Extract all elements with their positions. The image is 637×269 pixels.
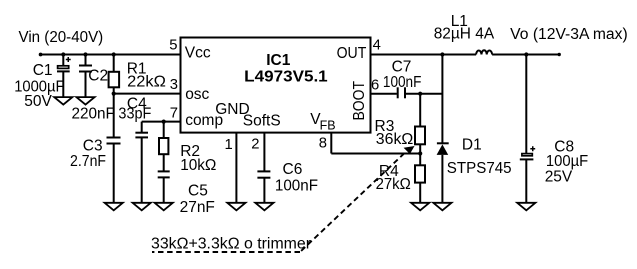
resistor R3: [415, 127, 425, 145]
wire D1 bottom: [441, 155, 443, 203]
wire C2 bottom: [85, 72, 87, 98]
wire output rail after L1: [492, 54, 559, 56]
ground pin1: [227, 203, 245, 211]
capacitor C8 electrolytic symbol: [520, 146, 535, 159]
wire C3 top: [113, 94, 115, 138]
wire R2 top: [163, 122, 165, 138]
capacitor C2 symbol: [79, 66, 92, 72]
wire dashed trimmer underline: [152, 251, 300, 253]
node comp junction R2: [162, 120, 166, 124]
ground D1: [433, 203, 451, 211]
wire C3 bottom: [113, 144, 115, 204]
svg-text:2: 2: [251, 137, 259, 153]
node C8 junction: [524, 52, 528, 56]
ground C8: [517, 203, 535, 211]
node divider VFB junction: [418, 151, 422, 155]
wire osc pin3: [114, 93, 181, 95]
wire C4 bottom: [141, 137, 143, 203]
svg-text:Vo (12V-3A max): Vo (12V-3A max): [510, 26, 628, 43]
svg-text:6: 6: [371, 78, 379, 94]
svg-text:osc: osc: [185, 86, 209, 103]
wire output rail OUT pin4: [371, 54, 477, 56]
ground C6: [255, 203, 273, 211]
svg-text:Vin (20-40V): Vin (20-40V): [19, 29, 104, 46]
wire BOOT pin6 to C7: [371, 93, 397, 95]
wire R2 bottom to C5: [163, 154, 165, 171]
capacitor C3 symbol: [107, 138, 121, 144]
wire dashed trimmer diagonal: [300, 153, 404, 252]
wire R3 top: [419, 94, 421, 127]
wire R1 bottom to osc node: [113, 87, 115, 93]
svg-text:C3: C3: [83, 137, 103, 154]
svg-text:IC1: IC1: [266, 52, 291, 69]
svg-text:100µF: 100µF: [546, 153, 588, 170]
node C1 junction: [61, 52, 65, 56]
ground R4: [411, 203, 429, 211]
svg-text:100nF: 100nF: [275, 177, 318, 194]
node input rail left end: [39, 53, 43, 57]
svg-text:220nF: 220nF: [72, 106, 115, 123]
resistor R2: [159, 138, 168, 154]
svg-text:D1: D1: [462, 136, 482, 153]
wire C4 top: [141, 122, 143, 133]
resistor R1: [109, 72, 120, 88]
node C2 junction: [83, 52, 87, 56]
svg-text:4: 4: [373, 38, 381, 54]
wire D1 vertical top: [441, 55, 443, 144]
wire C1 bottom: [62, 71, 64, 97]
svg-text:8: 8: [319, 136, 327, 152]
node Vo rail end: [558, 53, 561, 56]
wire C8 top: [525, 55, 527, 154]
ground C1: [54, 97, 72, 105]
svg-text:27kΩ: 27kΩ: [376, 176, 411, 193]
ground C5: [155, 203, 173, 211]
capacitor C1 electrolytic symbol: [57, 57, 71, 71]
wire R4 bottom: [419, 183, 421, 203]
svg-text:C1: C1: [33, 62, 53, 79]
svg-text:C5: C5: [188, 182, 208, 199]
wire C2 top: [85, 55, 87, 66]
wire C8 bottom: [525, 159, 527, 203]
svg-text:STPS745: STPS745: [447, 160, 512, 177]
node D1 junction: [440, 52, 444, 56]
node R1 junction: [112, 52, 116, 56]
ground C2: [76, 97, 94, 105]
svg-text:SoftS: SoftS: [243, 112, 281, 129]
svg-text:C6: C6: [283, 161, 303, 178]
resistor R4: [415, 165, 425, 182]
svg-text:82µH 4A: 82µH 4A: [434, 25, 495, 42]
wire C7 right to OUT line: [406, 93, 443, 95]
capacitor C6 symbol: [257, 171, 270, 177]
svg-text:36kΩ: 36kΩ: [376, 131, 414, 148]
ground C3: [105, 203, 123, 211]
svg-text:C2: C2: [88, 68, 108, 85]
diode D1: [437, 143, 449, 155]
svg-text:L4973V5.1: L4973V5.1: [244, 69, 328, 86]
wire R1 top: [113, 55, 115, 72]
capacitor C4 symbol: [135, 133, 148, 138]
wire C6 bottom: [263, 178, 265, 203]
svg-text:10kΩ: 10kΩ: [180, 157, 216, 174]
svg-text:27nF: 27nF: [180, 199, 215, 216]
wire SoftS pin2 to C6: [263, 133, 265, 172]
ground C4: [133, 203, 151, 211]
svg-text:100nF: 100nF: [383, 74, 422, 91]
svg-text:FB: FB: [320, 119, 336, 133]
wire R3 R4 junction: [419, 144, 421, 165]
svg-text:Vcc: Vcc: [185, 45, 211, 62]
wire C5 bottom: [163, 177, 165, 203]
svg-text:25V: 25V: [545, 169, 573, 186]
svg-text:5: 5: [169, 38, 177, 54]
wire VFB horizontal to divider: [331, 153, 420, 155]
svg-text:7: 7: [170, 105, 178, 121]
label VFB: [310, 111, 335, 133]
svg-text:33pF: 33pF: [118, 105, 151, 122]
trimmer arrow: [404, 146, 415, 154]
wire comp pin7: [142, 121, 181, 123]
op-amp IC1 box: [181, 38, 371, 133]
node osc junction: [112, 92, 116, 96]
capacitor C7 symbol: [398, 87, 405, 98]
svg-text:BOOT: BOOT: [351, 81, 368, 121]
svg-text:33kΩ+3.3kΩ o trimmer: 33kΩ+3.3kΩ o trimmer: [151, 235, 311, 252]
svg-text:2.7nF: 2.7nF: [70, 153, 106, 170]
svg-text:22kΩ: 22kΩ: [127, 74, 166, 91]
svg-text:OUT: OUT: [337, 45, 367, 62]
wire input rail Vin to pin5 Vcc: [41, 54, 181, 56]
inductor L1: [476, 50, 492, 54]
node C7 R3 junction: [418, 92, 422, 96]
svg-text:3: 3: [170, 77, 178, 93]
wire C1 top: [62, 55, 64, 66]
wire VFB pin8 down: [330, 133, 332, 154]
svg-text:1: 1: [225, 137, 233, 153]
wire GND pin1: [235, 133, 237, 203]
capacitor C5 symbol: [158, 171, 170, 177]
svg-text:50V: 50V: [24, 93, 52, 110]
